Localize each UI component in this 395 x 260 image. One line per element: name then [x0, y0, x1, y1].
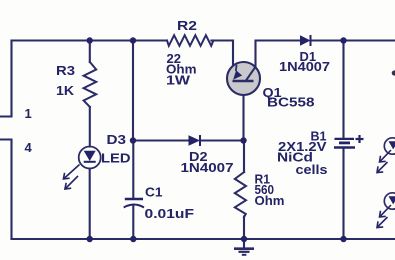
transistor Q1 [227, 62, 260, 95]
svg-text:R2: R2 [177, 18, 197, 33]
junction dot top rail battery [340, 37, 346, 43]
svg-text:1: 1 [25, 106, 32, 121]
wire Q1 base to D2/R1 junction [242, 81, 244, 141]
junction dot bottom rail LED [87, 236, 93, 242]
junction dot top rail R3 [87, 37, 93, 43]
wire pin4 stub [0, 140, 12, 240]
LED load bottom right [377, 193, 395, 228]
svg-text:LED: LED [101, 151, 131, 166]
ground [234, 249, 254, 255]
wire top rail junction to D2 junction [132, 41, 134, 141]
LED D3 [63, 147, 100, 190]
svg-text:1W: 1W [166, 72, 191, 87]
svg-text:R3: R3 [56, 63, 75, 78]
junction dot bottom rail battery [340, 236, 346, 242]
junction dot D2/C1 [130, 137, 136, 143]
wire battery bottom lead [342, 149, 344, 240]
diode D1 [300, 35, 311, 46]
svg-text:BC558: BC558 [267, 95, 315, 110]
svg-text:Ohm: Ohm [255, 193, 285, 208]
capacitor C1 [124, 199, 144, 208]
wire Q1 collector to top rail [256, 41, 301, 69]
junction dot D2/R1/Q1 base [240, 137, 246, 143]
junction dot bottom rail C1 [130, 236, 136, 242]
svg-text:0.01uF: 0.01uF [145, 206, 195, 221]
resistor R3 [84, 62, 97, 107]
resistor R1 [235, 172, 246, 217]
wire LED D3 to bottom rail [89, 169, 91, 240]
svg-text:4: 4 [25, 140, 33, 155]
wire top rail left [12, 39, 168, 41]
LED load top right [377, 138, 395, 173]
wire R1 top lead [243, 141, 245, 173]
wire D1 to right edge [311, 39, 395, 41]
battery B1 [334, 135, 364, 148]
wire pin1 stub [0, 41, 12, 117]
svg-text:C1: C1 [145, 184, 163, 199]
wire D2 left segment [133, 139, 189, 141]
svg-text:D3: D3 [107, 132, 127, 147]
svg-text:1K: 1K [56, 83, 75, 98]
wire R1 to bottom rail [243, 217, 245, 240]
wire R2 to Q1 emitter [211, 41, 233, 68]
wire R3 top lead [89, 41, 91, 63]
diode D2 [189, 135, 201, 146]
svg-text:1N4007: 1N4007 [279, 59, 330, 74]
svg-text:1N4007: 1N4007 [181, 160, 234, 175]
cut-off label fragment at right edge [392, 70, 395, 75]
wire D2 junction to C1 [132, 141, 134, 199]
wire C1 to bottom rail [132, 205, 134, 239]
wire bottom rail [12, 238, 395, 240]
svg-text:cells: cells [296, 162, 328, 177]
junction dot top rail x133 [130, 37, 136, 43]
resistor R2 [167, 35, 213, 46]
wire R3 to LED D3 [89, 107, 91, 147]
wire D2 right segment [200, 139, 244, 141]
wire ground lead [243, 239, 245, 248]
wire battery top lead [342, 41, 344, 138]
junction dot bottom rail ground [241, 236, 247, 242]
